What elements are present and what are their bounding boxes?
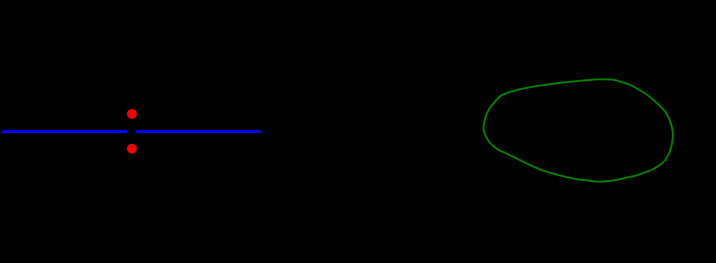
node A: upper red point marker: [127, 109, 137, 119]
wire: blue horizontal segment right of gap: [136, 130, 261, 133]
node B: lower red point marker: [127, 144, 137, 154]
wire: blue horizontal segment left of gap: [2, 130, 127, 133]
green closed contour loop: [483, 79, 672, 181]
